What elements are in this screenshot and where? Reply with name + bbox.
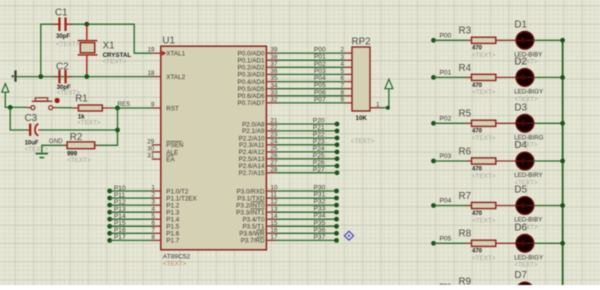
capacitor C3 bbox=[25, 113, 49, 153]
svg-text:15: 15 bbox=[271, 220, 278, 227]
svg-text:P1.6: P1.6 bbox=[166, 231, 179, 238]
node junction bbox=[115, 106, 120, 111]
svg-text:P01: P01 bbox=[314, 54, 326, 61]
net P01 wire bbox=[431, 75, 436, 80]
svg-text:P36: P36 bbox=[314, 227, 326, 234]
svg-text:GND: GND bbox=[49, 138, 63, 145]
svg-text:C3: C3 bbox=[25, 113, 38, 124]
svg-text:31: 31 bbox=[147, 153, 154, 160]
wire P06 to RP2 bbox=[266, 95, 276, 97]
svg-text:24: 24 bbox=[271, 138, 278, 145]
svg-text:4: 4 bbox=[152, 206, 156, 213]
svg-text:D1: D1 bbox=[514, 20, 527, 31]
svg-text:P27: P27 bbox=[313, 166, 325, 173]
node junction bbox=[8, 105, 13, 110]
svg-text:P2.5/A13: P2.5/A13 bbox=[239, 156, 265, 163]
svg-text:470: 470 bbox=[472, 129, 483, 135]
wire bbox=[67, 24, 152, 53]
wire P15 bbox=[107, 224, 112, 229]
pin 18 stub bbox=[152, 76, 161, 78]
svg-text:U1: U1 bbox=[162, 36, 175, 47]
svg-text:14: 14 bbox=[271, 213, 278, 220]
svg-text:X1: X1 bbox=[103, 41, 115, 52]
svg-text:35: 35 bbox=[271, 75, 278, 82]
wire P34 bbox=[266, 218, 276, 220]
wire P10 bbox=[107, 189, 112, 194]
svg-text:P05: P05 bbox=[314, 82, 326, 89]
svg-text:7: 7 bbox=[152, 227, 156, 234]
svg-text:P01: P01 bbox=[440, 70, 452, 77]
wire P24 bbox=[266, 151, 276, 153]
wire P14 bbox=[107, 217, 112, 222]
svg-text:<TEXT>: <TEXT> bbox=[77, 119, 101, 126]
net P04 wire bbox=[431, 203, 436, 208]
svg-text:R7: R7 bbox=[459, 191, 472, 202]
svg-text:12: 12 bbox=[271, 199, 278, 206]
wire P05 to RP2 bbox=[266, 88, 276, 90]
wire P03 to RP2 bbox=[266, 73, 276, 75]
led D7 bbox=[496, 270, 565, 290]
resistor R8 bbox=[459, 229, 496, 262]
wire C3 row bbox=[41, 129, 118, 131]
wire P27 bbox=[266, 172, 276, 174]
svg-text:P15: P15 bbox=[114, 220, 126, 227]
resistor R4 bbox=[459, 63, 496, 96]
resistor R6 bbox=[459, 146, 496, 179]
svg-text:<TEXT>: <TEXT> bbox=[472, 217, 496, 224]
svg-text:P00: P00 bbox=[314, 47, 326, 54]
wire P04 to RP2 bbox=[266, 81, 276, 83]
svg-text:2: 2 bbox=[341, 47, 345, 54]
wire P13 bbox=[107, 210, 112, 215]
svg-text:R2: R2 bbox=[70, 132, 83, 143]
svg-text:P03: P03 bbox=[314, 68, 326, 75]
svg-text:<TEXT>: <TEXT> bbox=[472, 135, 496, 142]
net P00 wire bbox=[431, 38, 436, 43]
svg-text:LED-BIRY: LED-BIRY bbox=[514, 172, 542, 179]
button bbox=[27, 98, 60, 110]
svg-text:6: 6 bbox=[152, 220, 156, 227]
svg-text:LED-BIGY: LED-BIGY bbox=[514, 89, 543, 96]
wire P26 bbox=[266, 165, 276, 167]
svg-text:470: 470 bbox=[472, 249, 483, 255]
svg-text:P17: P17 bbox=[114, 234, 126, 241]
svg-text:P14: P14 bbox=[114, 213, 126, 220]
power terminal bbox=[2, 84, 9, 93]
svg-text:34: 34 bbox=[271, 82, 278, 89]
wire bbox=[10, 107, 26, 130]
ground bbox=[36, 153, 49, 155]
svg-text:9: 9 bbox=[341, 97, 345, 104]
svg-text:P0.2/AD2: P0.2/AD2 bbox=[238, 65, 265, 72]
capacitor C1 bbox=[53, 8, 79, 49]
svg-text:11: 11 bbox=[271, 192, 278, 199]
svg-text:P3.1/TXD: P3.1/TXD bbox=[237, 195, 265, 202]
svg-text:P25: P25 bbox=[313, 152, 325, 159]
svg-text:P05: P05 bbox=[440, 236, 452, 243]
resistor R9 bbox=[459, 276, 472, 287]
svg-text:39: 39 bbox=[271, 47, 278, 54]
svg-text:P12: P12 bbox=[114, 199, 126, 206]
svg-text:P1.1/T2EX: P1.1/T2EX bbox=[166, 195, 197, 202]
svg-text:P0.7/AD7: P0.7/AD7 bbox=[238, 100, 265, 107]
svg-text:P04: P04 bbox=[314, 75, 326, 82]
capacitor C2 bbox=[53, 61, 80, 96]
svg-text:5: 5 bbox=[341, 68, 345, 75]
svg-text:30pF: 30pF bbox=[56, 34, 70, 40]
svg-text:P31: P31 bbox=[314, 192, 326, 199]
led D1 bbox=[496, 20, 565, 66]
svg-text:P21: P21 bbox=[313, 124, 325, 131]
power terminal bbox=[385, 79, 393, 89]
wire P33 bbox=[266, 211, 276, 213]
wire P30 bbox=[266, 190, 276, 192]
svg-text:4: 4 bbox=[341, 61, 345, 68]
svg-text:<TEXT>: <TEXT> bbox=[472, 52, 496, 59]
svg-text:P3.2/INT0: P3.2/INT0 bbox=[236, 202, 265, 209]
svg-text:36: 36 bbox=[271, 68, 278, 75]
wire bbox=[41, 24, 59, 76]
wire P37 bbox=[266, 239, 276, 241]
node junction bbox=[84, 74, 89, 79]
svg-text:P0.5/AD5: P0.5/AD5 bbox=[238, 86, 265, 93]
svg-text:5: 5 bbox=[152, 213, 156, 220]
origin marker bbox=[344, 231, 353, 240]
svg-text:P16: P16 bbox=[114, 227, 126, 234]
wire P35 bbox=[266, 225, 276, 227]
pin 29 stub bbox=[152, 144, 161, 146]
svg-text:<TEXT>: <TEXT> bbox=[103, 58, 127, 65]
svg-text:D6: D6 bbox=[514, 223, 527, 234]
svg-text:P34: P34 bbox=[314, 213, 326, 220]
svg-text:37: 37 bbox=[271, 61, 278, 68]
svg-text:28: 28 bbox=[271, 166, 278, 173]
wire P11 bbox=[107, 196, 112, 201]
svg-text:P13: P13 bbox=[114, 206, 126, 213]
svg-text:P1.0/T2: P1.0/T2 bbox=[166, 188, 189, 195]
svg-text:30: 30 bbox=[147, 146, 154, 153]
chip U1 body bbox=[161, 46, 267, 250]
svg-text:P1.3: P1.3 bbox=[166, 210, 179, 217]
svg-text:D5: D5 bbox=[514, 185, 527, 196]
svg-text:P2.7/A15: P2.7/A15 bbox=[239, 170, 265, 177]
svg-text:P23: P23 bbox=[313, 138, 325, 145]
svg-text:33: 33 bbox=[271, 89, 278, 96]
svg-text:13: 13 bbox=[271, 206, 278, 213]
svg-text:<TEXT>: <TEXT> bbox=[67, 157, 91, 164]
svg-text:470: 470 bbox=[472, 46, 483, 52]
cathode bus wire bbox=[562, 40, 564, 285]
wire XTAL2 row bbox=[17, 76, 152, 78]
svg-text:P3.3/INT1: P3.3/INT1 bbox=[236, 210, 265, 217]
svg-text:P32: P32 bbox=[314, 199, 326, 206]
svg-text:P3.4/T0: P3.4/T0 bbox=[242, 217, 265, 224]
wire bbox=[57, 107, 73, 109]
wire P21 bbox=[266, 130, 276, 132]
svg-text:P06: P06 bbox=[314, 89, 326, 96]
wire P32 bbox=[266, 204, 276, 206]
wire P00 to RP2 bbox=[266, 52, 276, 54]
svg-text:P1.7: P1.7 bbox=[166, 238, 179, 245]
pin 19 stub bbox=[152, 52, 161, 54]
svg-text:P0.3/AD3: P0.3/AD3 bbox=[238, 72, 265, 79]
svg-text:P1.5: P1.5 bbox=[166, 224, 179, 231]
svg-text:P2.1/A9: P2.1/A9 bbox=[242, 128, 265, 135]
led D3 bbox=[496, 103, 565, 149]
resistor pack RP2 bbox=[351, 36, 375, 145]
svg-text:10K: 10K bbox=[356, 115, 368, 122]
wire bbox=[98, 108, 118, 145]
svg-text:6: 6 bbox=[341, 75, 345, 82]
svg-text:P3.7/RD: P3.7/RD bbox=[241, 238, 265, 245]
net P02 wire bbox=[431, 121, 436, 126]
svg-text:<TEXT>: <TEXT> bbox=[472, 173, 496, 180]
ground bar terminal bbox=[12, 75, 14, 77]
wire P12 bbox=[107, 203, 112, 208]
svg-text:P33: P33 bbox=[314, 206, 326, 213]
svg-text:P35: P35 bbox=[314, 220, 326, 227]
svg-text:P0.0/AD0: P0.0/AD0 bbox=[238, 50, 265, 57]
pin 30 stub bbox=[152, 151, 161, 153]
wire P22 bbox=[266, 137, 276, 139]
wire P17 bbox=[107, 238, 112, 243]
svg-text:P03: P03 bbox=[440, 153, 452, 160]
node junction bbox=[38, 74, 43, 79]
svg-text:P07: P07 bbox=[314, 96, 326, 103]
svg-text:9: 9 bbox=[151, 101, 155, 108]
wire P25 bbox=[266, 158, 276, 160]
wire bbox=[42, 145, 63, 152]
svg-text:10: 10 bbox=[271, 185, 278, 192]
wire P31 bbox=[266, 197, 276, 199]
svg-text:3: 3 bbox=[152, 199, 156, 206]
svg-text:LED-BIGY: LED-BIGY bbox=[514, 255, 543, 262]
svg-text:P11: P11 bbox=[114, 192, 126, 199]
svg-text:P2.3/A11: P2.3/A11 bbox=[239, 142, 265, 149]
svg-text:D3: D3 bbox=[514, 103, 527, 114]
svg-text:P0.6/AD6: P0.6/AD6 bbox=[238, 93, 265, 100]
svg-text:R4: R4 bbox=[459, 63, 472, 74]
svg-text:<TEXT>: <TEXT> bbox=[25, 146, 49, 153]
svg-text:P1.2: P1.2 bbox=[166, 202, 179, 209]
svg-text:8: 8 bbox=[341, 89, 345, 96]
svg-text:8: 8 bbox=[152, 234, 156, 241]
wire P20 bbox=[266, 123, 276, 125]
svg-text:470: 470 bbox=[472, 166, 483, 172]
svg-text:<TEXT>: <TEXT> bbox=[163, 260, 187, 267]
svg-text:32: 32 bbox=[271, 97, 278, 104]
svg-text:470: 470 bbox=[472, 83, 483, 89]
wire P36 bbox=[266, 232, 276, 234]
svg-text:RST: RST bbox=[166, 105, 179, 112]
svg-text:38: 38 bbox=[271, 54, 278, 61]
svg-text:P04: P04 bbox=[440, 198, 452, 205]
svg-text:R9: R9 bbox=[459, 276, 472, 285]
svg-text:17: 17 bbox=[271, 234, 278, 241]
svg-text:P0.4/AD4: P0.4/AD4 bbox=[238, 79, 265, 86]
resistor R1 bbox=[72, 94, 110, 127]
resistor R3 bbox=[459, 26, 496, 59]
svg-text:EA: EA bbox=[166, 156, 175, 163]
resistor R5 bbox=[459, 109, 496, 142]
node crystal-top junction bbox=[84, 22, 89, 27]
wire P23 bbox=[266, 144, 276, 146]
svg-text:P10: P10 bbox=[114, 185, 126, 192]
svg-text:19: 19 bbox=[148, 47, 155, 54]
svg-text:AT89C52: AT89C52 bbox=[163, 253, 191, 260]
svg-text:D7: D7 bbox=[514, 270, 527, 281]
led D6 bbox=[496, 223, 565, 269]
svg-text:1: 1 bbox=[152, 185, 156, 192]
svg-text:C1: C1 bbox=[55, 8, 68, 19]
svg-text:<TEXT>: <TEXT> bbox=[56, 41, 80, 48]
svg-text:470: 470 bbox=[472, 211, 483, 217]
wire P02 to RP2 bbox=[266, 66, 276, 68]
svg-text:2: 2 bbox=[152, 192, 156, 199]
svg-text:26: 26 bbox=[271, 152, 278, 159]
svg-text:R5: R5 bbox=[459, 109, 472, 120]
svg-text:<TEXT>: <TEXT> bbox=[472, 255, 496, 262]
svg-text:18: 18 bbox=[148, 70, 155, 77]
pin 31 stub bbox=[152, 158, 161, 160]
svg-text:3: 3 bbox=[341, 54, 345, 61]
wire RST row bbox=[110, 107, 152, 109]
svg-text:D2: D2 bbox=[514, 57, 527, 68]
resistor R7 bbox=[459, 191, 496, 224]
svg-text:XTAL1: XTAL1 bbox=[166, 51, 185, 58]
svg-text:D4: D4 bbox=[514, 140, 527, 151]
svg-text:29: 29 bbox=[147, 139, 154, 146]
svg-text:PSEN: PSEN bbox=[166, 142, 184, 149]
led D5 bbox=[496, 185, 565, 231]
svg-text:P02: P02 bbox=[440, 116, 452, 123]
svg-text:R3: R3 bbox=[459, 26, 472, 37]
svg-text:<TEXT>: <TEXT> bbox=[514, 262, 538, 269]
svg-text:16: 16 bbox=[271, 227, 278, 234]
svg-text:1: 1 bbox=[376, 101, 380, 108]
svg-text:R1: R1 bbox=[75, 94, 88, 105]
node junction bbox=[115, 128, 120, 133]
svg-text:P3.0/RXD: P3.0/RXD bbox=[237, 188, 265, 195]
svg-text:<TEXT>: <TEXT> bbox=[472, 89, 496, 96]
svg-text:P30: P30 bbox=[314, 185, 326, 192]
wire P01 to RP2 bbox=[266, 59, 276, 61]
wire P07 to RP2 bbox=[266, 102, 276, 104]
svg-text:R8: R8 bbox=[459, 229, 472, 240]
svg-text:7: 7 bbox=[341, 82, 345, 89]
led D4 bbox=[496, 140, 565, 186]
wire RP2 pin1 bbox=[370, 107, 381, 109]
svg-text:P3.6/WR: P3.6/WR bbox=[239, 231, 265, 238]
svg-text:RP2: RP2 bbox=[352, 36, 371, 47]
wire P16 bbox=[107, 231, 112, 236]
net P03 wire bbox=[431, 159, 436, 164]
svg-text:P3.5/T1: P3.5/T1 bbox=[242, 224, 265, 231]
net P05 wire bbox=[431, 241, 436, 246]
svg-text:P37: P37 bbox=[314, 234, 326, 241]
crystal X1 bbox=[78, 25, 132, 76]
led D2 bbox=[496, 57, 565, 103]
pin marker XTAL1 bbox=[162, 51, 166, 56]
svg-text:22: 22 bbox=[271, 125, 278, 132]
svg-text:P0.1/AD1: P0.1/AD1 bbox=[238, 58, 265, 65]
svg-text:P00: P00 bbox=[440, 33, 452, 40]
svg-text:<TEXT>: <TEXT> bbox=[351, 138, 375, 145]
svg-text:R6: R6 bbox=[459, 146, 472, 157]
resistor R2 bbox=[63, 132, 98, 164]
svg-text:C2: C2 bbox=[56, 61, 69, 72]
pin 9 stub bbox=[152, 107, 161, 109]
svg-text:P02: P02 bbox=[314, 61, 326, 68]
svg-text:XTAL2: XTAL2 bbox=[166, 74, 185, 81]
svg-text:P1.4: P1.4 bbox=[166, 217, 179, 224]
